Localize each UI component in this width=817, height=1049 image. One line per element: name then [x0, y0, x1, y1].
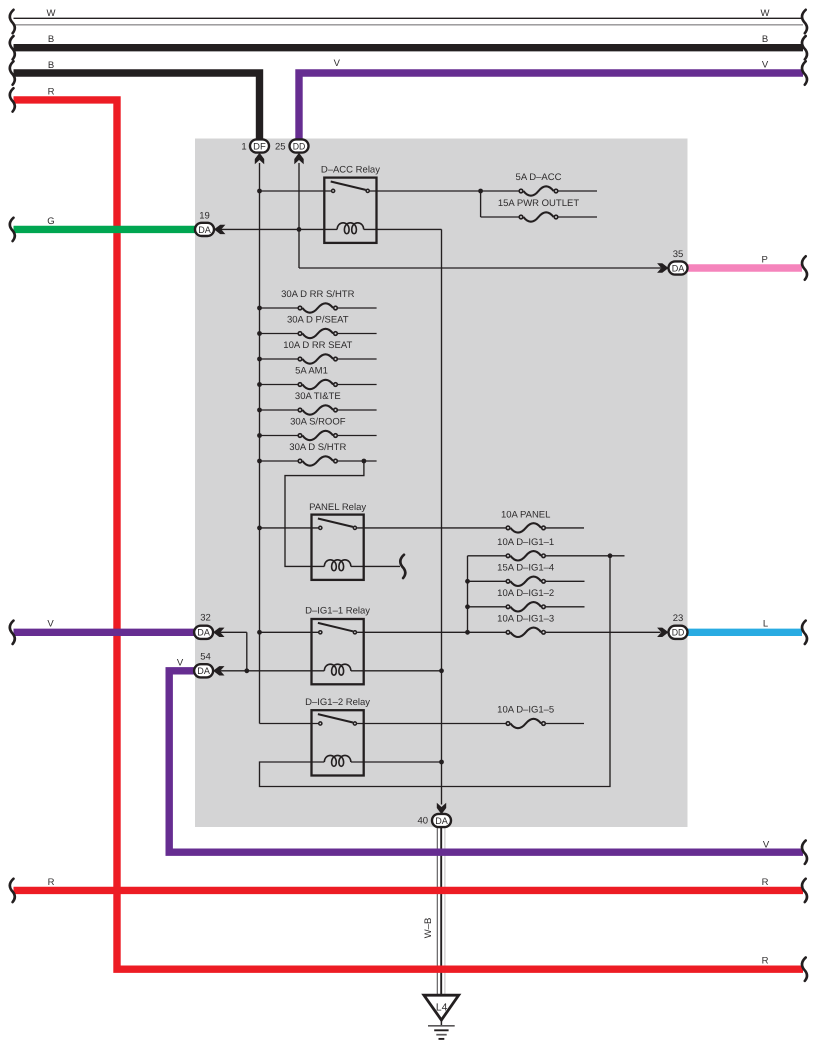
wire: PANEL relay coil output stub — [351, 565, 400, 567]
svg-text:10A D RR SEAT: 10A D RR SEAT — [283, 340, 352, 351]
connector DA pin 19 — [195, 223, 214, 236]
node: rail / D-IG1-3 row junction — [465, 630, 470, 635]
svg-text:B: B — [48, 60, 54, 71]
fuse 5A AM1 feed — [260, 384, 298, 386]
svg-text:B: B — [762, 34, 768, 45]
svg-text:15A PWR OUTLET: 15A PWR OUTLET — [498, 198, 579, 209]
wire R: middle red wire full width — [14, 887, 804, 894]
fuse 10A PANEL — [506, 526, 510, 530]
break symbol right break P — [802, 256, 807, 279]
break symbol left break B — [10, 36, 15, 59]
node: 30A D S/HTR output junction to PANEL relay coil — [362, 459, 367, 464]
fuse 30A TI&TE feed — [260, 409, 298, 411]
svg-text:PANEL Relay: PANEL Relay — [309, 502, 366, 513]
wire: 10A PANEL fuse output — [546, 527, 584, 529]
svg-text:DD: DD — [672, 627, 685, 638]
fuse 30A D RR S/HTR — [298, 306, 302, 310]
wire W: top white wire (outlined) — [14, 18, 804, 26]
node: D-IG1-2 coil output / ground line junction — [439, 760, 444, 765]
svg-text:DF: DF — [253, 140, 266, 151]
connector DA pin 32 — [194, 626, 213, 639]
svg-text:D–IG1–2 Relay: D–IG1–2 Relay — [305, 697, 370, 708]
svg-text:R: R — [48, 877, 55, 888]
node: DF line / D-ACC switch row junction — [257, 189, 262, 194]
wire: branch down to 15A PWR OUTLET fuse — [480, 191, 482, 217]
svg-text:30A D RR S/HTR: 30A D RR S/HTR — [281, 289, 355, 300]
svg-text:5A AM1: 5A AM1 — [295, 366, 328, 377]
relay PANEL Relay — [312, 515, 364, 580]
break symbol left break R mid — [10, 879, 15, 902]
wire: 5A D-ACC fuse output — [559, 190, 598, 192]
node: rail / 10A D-IG1-2 junction — [465, 604, 470, 609]
fuse 15A PWR OUTLET — [519, 215, 523, 219]
connector DD pin 23 — [669, 626, 688, 639]
break symbol left break W — [10, 10, 15, 33]
svg-text:35: 35 — [673, 249, 684, 260]
fuse 30A S/ROOF — [298, 434, 302, 438]
svg-text:R: R — [762, 877, 769, 888]
wire P: pink from pin 35 to right — [687, 264, 802, 271]
svg-text:DA: DA — [672, 262, 685, 273]
svg-text:P: P — [762, 254, 768, 265]
svg-text:G: G — [47, 216, 54, 227]
relay D-IG1-1 Relay — [312, 619, 364, 684]
fuse 10A D RR SEAT — [298, 357, 302, 361]
svg-text:54: 54 — [200, 652, 211, 663]
wire: ground vertical line to pin 40 — [441, 229, 443, 804]
break symbol at PANEL relay coil output — [400, 555, 405, 578]
fuse 30A TI&TE — [298, 408, 302, 412]
fuse 30A D S/HTR — [298, 459, 302, 463]
break symbol right break W — [802, 10, 807, 33]
break symbol right break V bottom — [802, 841, 807, 864]
wire: D-ACC relay switch input from DF line — [260, 190, 331, 192]
svg-text:1: 1 — [241, 141, 246, 152]
wire L: light blue from pin 23 to right — [687, 629, 802, 636]
ground symbol L4 — [424, 995, 459, 1020]
wire W-B from pin 40 to ground L4 (white wire with black stripe) — [437, 826, 446, 995]
wire: 30A D S/HTR output down-left to PANEL relay coil — [285, 461, 364, 566]
svg-text:32: 32 — [200, 613, 211, 624]
wire: D-IG1-1 relay switch output to 10A D-IG1-3 fuse — [357, 631, 505, 633]
relay D-ACC Relay — [324, 178, 376, 243]
arrow into pin 40 DA (down) — [437, 803, 446, 814]
svg-text:DD: DD — [293, 140, 306, 151]
fuse 10A D-IG1-3 — [506, 631, 510, 635]
fuse 10A D-IG1-5 — [506, 722, 510, 726]
node: rail / 15A D-IG1-4 junction — [465, 579, 470, 584]
wire: DF pin1 vertical feed down through fuse bank to D-IG1-2 relay — [259, 163, 261, 724]
node: pin32 link / coil row junction — [244, 668, 249, 673]
wire: D-IG1-2 coil output to ground line — [351, 761, 442, 763]
arrow into pin 25 DD — [294, 153, 303, 164]
break symbol right break B — [802, 36, 807, 59]
node: DF line / PANEL switch row junction — [257, 526, 262, 531]
node: DD line / coil row junction — [297, 227, 302, 232]
break symbol right break R bottom — [802, 958, 807, 981]
arrow into pin 35 DA — [657, 263, 668, 272]
wire: D-IG1-2 relay switch output to 10A D-IG1-5 fuse — [357, 723, 505, 725]
break symbol left break V mid — [10, 621, 15, 644]
svg-text:B: B — [48, 34, 54, 45]
fuse 10A D-IG1-1 feed — [468, 555, 506, 557]
fuse 10A D-IG1-2 — [506, 605, 510, 609]
svg-text:10A PANEL: 10A PANEL — [501, 509, 550, 520]
wire: D-IG1-1 coil row from pin 54 to coil — [221, 670, 325, 672]
svg-text:R: R — [48, 86, 55, 97]
break symbol left break R — [10, 88, 15, 111]
fuse 15A D-IG1-4 — [506, 580, 510, 584]
svg-text:V: V — [763, 840, 770, 851]
connector DF pin 1 — [250, 139, 269, 152]
svg-text:V: V — [177, 657, 184, 668]
svg-text:5A D–ACC: 5A D–ACC — [516, 172, 562, 183]
fuse 30A D P/SEAT feed — [260, 333, 298, 335]
svg-text:V: V — [47, 618, 54, 629]
svg-text:DA: DA — [197, 627, 210, 638]
arrow into pin 1 DF — [255, 153, 264, 164]
svg-text:10A D–IG1–3: 10A D–IG1–3 — [497, 614, 554, 625]
svg-text:40: 40 — [418, 816, 429, 827]
wire: right fuse rail vertical — [467, 556, 469, 633]
wire: PANEL relay switch output to 10A PANEL fuse — [357, 527, 505, 529]
fuse 30A D S/HTR feed — [260, 460, 298, 462]
fuse 10A D-IG1-2 feed — [468, 606, 506, 608]
relay D-IG1-2 Relay — [312, 710, 364, 775]
svg-text:DA: DA — [198, 224, 211, 235]
svg-text:30A D S/HTR: 30A D S/HTR — [289, 442, 346, 453]
break symbol right break R mid — [802, 879, 807, 902]
svg-text:30A S/ROOF: 30A S/ROOF — [290, 417, 346, 428]
arrow out pin 19 DA — [214, 225, 225, 234]
svg-text:D–IG1–1 Relay: D–IG1–1 Relay — [305, 605, 370, 616]
wire: pin 32 link down to coil row — [221, 631, 247, 633]
node: 10A D-IG1-1 output junction — [608, 553, 613, 558]
svg-text:R: R — [762, 956, 769, 967]
wire: 10A D-IG1-3 output to pin 23 — [546, 631, 661, 633]
svg-text:25: 25 — [275, 141, 286, 152]
fuse 10A D-IG1-1 — [506, 554, 510, 558]
svg-text:DA: DA — [197, 665, 210, 676]
fuse 30A D RR S/HTR feed — [260, 307, 298, 309]
svg-text:30A TI&TE: 30A TI&TE — [295, 391, 341, 402]
svg-text:L: L — [763, 619, 768, 630]
wire: DD pin25 vertical feed down — [298, 163, 300, 268]
wire: D-IG1-1 coil output to ground line — [351, 670, 442, 672]
wire V: middle left to pin 32 — [14, 629, 196, 636]
arrow out pin 54 DA — [213, 666, 224, 675]
break symbol right break L — [802, 621, 807, 644]
wire B: top black wire full width — [14, 44, 804, 51]
svg-text:10A D–IG1–2: 10A D–IG1–2 — [497, 588, 554, 599]
svg-text:W: W — [47, 8, 56, 19]
arrow into pin 23 DD — [657, 628, 668, 637]
junction block (driver side J/B) gray body — [195, 139, 688, 828]
connector DA pin 35 — [669, 261, 688, 274]
svg-text:23: 23 — [673, 613, 684, 624]
connector DA pin 54 — [194, 664, 213, 677]
wire: PANEL relay switch input from DF line — [260, 527, 319, 529]
break symbol left break G — [10, 218, 15, 241]
svg-text:30A D P/SEAT: 30A D P/SEAT — [287, 315, 349, 326]
svg-text:V: V — [334, 58, 341, 69]
svg-text:19: 19 — [199, 211, 210, 222]
node: DF line / D-IG1-1 switch row junction — [257, 630, 262, 635]
connector DA pin 40 — [432, 814, 451, 827]
fuse 30A S/ROOF feed — [260, 435, 298, 437]
fuse 30A D P/SEAT — [298, 332, 302, 336]
break symbol right break V — [802, 61, 807, 84]
node: coil output / ground line junction — [439, 668, 444, 673]
break symbol left break B2 — [10, 61, 15, 84]
fuse 5A D-ACC — [519, 189, 523, 193]
svg-text:10A D–IG1–1: 10A D–IG1–1 — [497, 537, 554, 548]
wire: 15A PWR OUTLET fuse output — [559, 216, 598, 218]
wire: 10A D-IG1-1 output to right rail — [546, 555, 625, 557]
wire: right rail down and across to D-IG1-2 relay coil — [260, 556, 611, 787]
wire: D-ACC relay coil row from pin 19 arrow to coil — [221, 228, 338, 230]
wire: D-ACC relay switch output to fuse feed — [370, 190, 519, 192]
svg-text:W–B: W–B — [423, 918, 434, 939]
wire: D-IG1-2 relay switch input (DF line corner) — [260, 723, 319, 725]
node: 5A/15A fuse feed junction — [478, 189, 483, 194]
svg-text:D–ACC Relay: D–ACC Relay — [321, 164, 380, 175]
wire: DD feed to pin 35 output horizontal — [299, 267, 661, 269]
fuse 5A AM1 — [298, 383, 302, 387]
wire: 15A PWR OUTLET fuse feed — [481, 216, 519, 218]
connector DD pin 25 — [290, 139, 309, 152]
svg-text:10A D–IG1–5: 10A D–IG1–5 — [497, 705, 554, 716]
wire G: green to pin 19 — [14, 226, 197, 233]
wire V: top violet from pin 25 DD to right — [299, 73, 803, 141]
fuse 10A D RR SEAT feed — [260, 358, 298, 360]
wire B: second black wire into pin 1 DF — [14, 73, 260, 141]
arrow out pin 32 DA — [213, 628, 224, 637]
svg-text:L4: L4 — [436, 1002, 448, 1013]
svg-text:W: W — [761, 8, 770, 19]
svg-text:V: V — [762, 60, 769, 71]
wire: D-IG1-1 relay switch input from DF line — [260, 631, 319, 633]
svg-text:15A D–IG1–4: 15A D–IG1–4 — [497, 563, 554, 574]
wire: D-ACC relay coil output to ground line — [364, 228, 442, 230]
wire V: from pin 54 down and across to right — [169, 671, 803, 852]
svg-text:DA: DA — [435, 815, 448, 826]
fuse 15A D-IG1-4 feed — [468, 580, 506, 582]
